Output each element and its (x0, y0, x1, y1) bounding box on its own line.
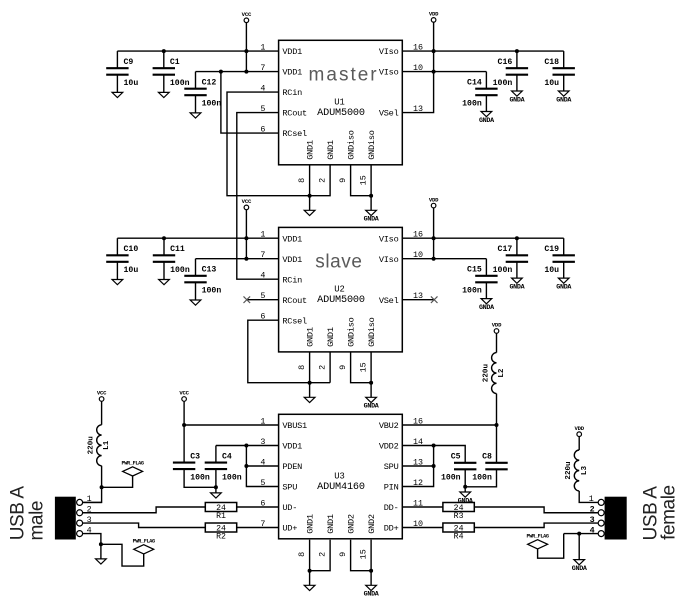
wire U3 GND1 pin 2 (310, 540, 331, 571)
svg-text:100n: 100n (170, 266, 190, 275)
ground GNDA below C17 (516, 262, 518, 278)
svg-text:2: 2 (590, 504, 595, 514)
ground GNDA U1 (370, 196, 372, 211)
svg-text:10u: 10u (124, 266, 139, 275)
svg-text:VIso: VIso (379, 255, 399, 265)
wire VCC slave vertical (245, 210, 247, 259)
svg-text:220u: 220u (565, 461, 573, 480)
junction VCC/U2 pin1 (244, 236, 248, 240)
svg-text:8: 8 (297, 552, 307, 557)
svg-text:C5: C5 (451, 453, 461, 462)
svg-text:GNDA: GNDA (364, 216, 380, 224)
wire USB male pin3 to R2 (83, 523, 206, 527)
svg-text:GNDiso: GNDiso (347, 317, 357, 347)
ground USB male (100, 544, 102, 559)
svg-text:R4: R4 (454, 532, 464, 541)
wire VDD to L2 (496, 333, 498, 353)
junction GNDiso U2 (369, 381, 373, 385)
wire USB male pin1 (83, 501, 102, 503)
power symbol VDD (L3) (577, 432, 582, 437)
no-connect X on U2 VSel (431, 296, 438, 303)
wire U1 VSel to VDD (402, 22, 433, 113)
svg-text:220u: 220u (88, 436, 96, 455)
wire U1 GNDiso pin 15 (370, 165, 372, 196)
wire U2 GNDiso pin 9 (351, 352, 372, 383)
power flag PWR_FLAG 2 (101, 544, 144, 566)
wire U1 GNDiso pin 9 (351, 165, 372, 196)
svg-text:U3: U3 (334, 471, 345, 481)
svg-text:220u: 220u (483, 364, 491, 383)
svg-text:15: 15 (358, 362, 368, 372)
junction C1/VDD1 (162, 49, 166, 53)
svg-text:7: 7 (260, 63, 265, 73)
svg-text:2: 2 (317, 178, 327, 183)
svg-text:GND1: GND1 (306, 140, 316, 160)
capacitor C3 (183, 462, 185, 464)
wire U1 RCout to U2 RCin (237, 113, 279, 280)
svg-text:C4: C4 (222, 453, 232, 462)
svg-text:100n: 100n (202, 287, 222, 296)
svg-text:C14: C14 (467, 79, 482, 88)
capacitor C19 (563, 238, 565, 255)
junction GND1 U3 (308, 569, 312, 573)
wire U3 SPU right net (402, 465, 433, 467)
svg-text:100n: 100n (462, 100, 482, 109)
svg-text:GND1: GND1 (306, 327, 316, 347)
svg-text:5: 5 (260, 478, 265, 488)
wire R4 to USB female pin3 (474, 523, 598, 527)
svg-text:100n: 100n (202, 100, 222, 109)
svg-text:VDD1: VDD1 (282, 442, 302, 452)
wire L2 to VBU2 (496, 394, 498, 463)
wire USB male pin2 to R1 (83, 507, 206, 513)
wire R1 to U3 UD- (237, 506, 279, 508)
svg-text:8: 8 (297, 365, 307, 370)
svg-text:VCC: VCC (242, 11, 252, 18)
svg-text:C16: C16 (498, 58, 513, 67)
svg-text:2: 2 (317, 365, 327, 370)
svg-text:SPU: SPU (384, 462, 399, 472)
capacitor C9 (116, 51, 118, 68)
svg-text:C10: C10 (124, 245, 139, 254)
svg-text:10u: 10u (124, 79, 139, 88)
wire U3 DD- to R3 (402, 506, 443, 508)
capacitor C16 (516, 51, 518, 68)
svg-text:VIso: VIso (379, 47, 399, 57)
svg-text:C12: C12 (202, 79, 217, 88)
junction VCC/pin1 (244, 49, 248, 53)
svg-text:R2: R2 (216, 532, 226, 541)
resistor R1 (205, 503, 236, 512)
svg-text:15: 15 (358, 175, 368, 185)
wire U2 GND1 pin 2 (329, 352, 331, 383)
wire U2 GND1 pin 8 (309, 352, 311, 383)
capacitor C10 (116, 238, 118, 255)
wire U1 VIso pin10 net (402, 71, 486, 73)
svg-text:VDD1: VDD1 (282, 47, 302, 57)
power flag PWR_FLAG 1 (102, 476, 133, 487)
svg-text:C8: C8 (482, 453, 492, 462)
svg-text:VDD: VDD (429, 196, 439, 203)
svg-text:C13: C13 (202, 266, 217, 275)
capacitor C18 (563, 51, 565, 68)
ground below C11 (163, 262, 165, 280)
wire U2 VIso pin16 net (402, 237, 563, 239)
wire VDD slave vertical (433, 208, 435, 259)
wire U2 RCout stub (247, 299, 279, 301)
svg-text:100n: 100n (190, 474, 210, 483)
capacitor C11 (163, 238, 165, 255)
junction VCC/pin7 (244, 70, 248, 74)
svg-text:GNDA: GNDA (509, 283, 525, 291)
svg-text:9: 9 (338, 365, 348, 370)
svg-text:10u: 10u (544, 79, 559, 88)
junction C5/C8 ground (463, 485, 467, 489)
svg-text:VCC: VCC (97, 390, 107, 397)
junction PDEN (244, 464, 248, 468)
op-amp U2 ADUM5000 slave (279, 227, 403, 352)
svg-text:VDD: VDD (429, 11, 439, 18)
svg-text:C17: C17 (498, 245, 513, 254)
junction L2/VBU2/C8 (495, 423, 499, 427)
capacitor C15 (485, 259, 487, 276)
svg-text:GNDA: GNDA (479, 304, 495, 312)
svg-text:VBUS1: VBUS1 (282, 421, 307, 431)
svg-text:C19: C19 (544, 245, 559, 254)
svg-text:7: 7 (260, 519, 265, 529)
svg-text:4: 4 (260, 83, 265, 93)
svg-text:VSel: VSel (379, 109, 399, 119)
svg-text:master: master (309, 65, 379, 86)
USB A female connector J2 (605, 497, 627, 540)
wire VCC to C3 (183, 401, 185, 463)
svg-text:9: 9 (338, 178, 348, 183)
junction VDD/U2 pin10 (432, 257, 436, 261)
svg-text:U2: U2 (334, 284, 345, 294)
svg-text:VSel: VSel (379, 296, 399, 306)
svg-text:PWR_FLAG: PWR_FLAG (133, 538, 155, 544)
svg-text:1: 1 (589, 494, 594, 504)
wire U3 PIN net (402, 446, 433, 487)
capacitor C14 (485, 72, 487, 89)
svg-text:GNDA: GNDA (479, 117, 495, 125)
power symbol VCC (slave) (244, 205, 249, 210)
wire U2 VDD1 pin7 net (196, 258, 279, 260)
op-amp U3 ADUM4160 (279, 414, 403, 539)
wire L1 to USB male pin1 (83, 466, 102, 503)
wire C4 bottom (215, 469, 217, 487)
svg-text:RCsel: RCsel (282, 316, 307, 326)
capacitor C13 (195, 259, 197, 276)
resistor R4 (443, 523, 474, 532)
svg-text:ADUM5000: ADUM5000 (317, 295, 365, 306)
svg-text:100n: 100n (472, 474, 492, 483)
resistor R2 (205, 523, 236, 532)
wire U1 GND1 pin 2 (310, 165, 331, 196)
junction GNDiso U1 (369, 194, 373, 198)
svg-text:L3: L3 (581, 466, 589, 476)
svg-text:GNDA: GNDA (556, 96, 572, 104)
svg-text:RCin: RCin (282, 88, 302, 98)
ground U2 GND1 (309, 383, 311, 398)
power symbol VCC (VBUS1) (182, 397, 187, 402)
ground below C13 (195, 282, 197, 300)
wire U1 RCsel to VDD1 (221, 72, 279, 134)
power symbol VDD (slave) (431, 203, 436, 208)
wire USB male pin4 gnd (83, 534, 101, 545)
svg-text:5: 5 (260, 104, 265, 114)
junction GND2 U3 (369, 569, 373, 573)
ground below C10 (116, 262, 118, 280)
svg-text:6: 6 (260, 312, 265, 322)
svg-text:GNDA: GNDA (364, 403, 380, 411)
svg-text:VIso: VIso (379, 234, 399, 244)
ground below C3 C4 (215, 487, 217, 493)
svg-text:100n: 100n (493, 79, 513, 88)
wire R3 to USB female pin2 (474, 507, 598, 513)
svg-text:VIso: VIso (379, 68, 399, 78)
svg-text:VCC: VCC (179, 390, 189, 397)
wire USB female pin4 gnd (564, 533, 599, 535)
wire U1 VIso pin16 net (402, 50, 563, 52)
svg-text:female: female (659, 485, 680, 540)
svg-text:PIN: PIN (384, 483, 399, 493)
ground GNDA USB female (578, 534, 580, 560)
ground U3 GND1 (309, 571, 311, 586)
svg-text:2: 2 (317, 552, 327, 557)
ground GNDA below C15 (485, 282, 487, 298)
power symbol VDD (L2) (494, 329, 499, 334)
svg-text:RCsel: RCsel (282, 129, 307, 139)
svg-text:UD+: UD+ (282, 524, 297, 534)
svg-text:1: 1 (260, 230, 265, 240)
op-amp U1 ADUM5000 master (279, 40, 403, 165)
svg-text:100n: 100n (441, 474, 461, 483)
svg-text:R3: R3 (454, 512, 464, 521)
ground below C1 (163, 75, 165, 93)
ground below C12 (195, 95, 197, 113)
svg-text:1: 1 (260, 416, 265, 426)
svg-text:ADUM5000: ADUM5000 (317, 108, 365, 119)
junction VDD2 (432, 444, 436, 448)
svg-text:5: 5 (260, 291, 265, 301)
svg-text:RCout: RCout (282, 109, 307, 119)
wire R2 to U3 UD+ (237, 527, 279, 529)
power symbol VCC (L1) (99, 397, 104, 402)
inductor L2 (492, 353, 497, 394)
svg-text:DD+: DD+ (384, 524, 399, 534)
ground U1 GND1 (309, 196, 311, 211)
svg-text:100n: 100n (222, 474, 242, 483)
svg-text:9: 9 (338, 552, 348, 557)
junction male shield (99, 542, 103, 546)
wire U3 PDEN net (246, 465, 278, 467)
svg-text:C11: C11 (170, 245, 185, 254)
svg-text:C9: C9 (124, 58, 134, 67)
svg-text:VBU2: VBU2 (379, 421, 399, 431)
svg-text:PDEN: PDEN (282, 462, 302, 472)
svg-text:UD-: UD- (282, 503, 297, 513)
wire U2 VDD1 pin1 net (117, 237, 278, 239)
svg-text:RCout: RCout (282, 296, 307, 306)
junction GND1 U2 (308, 381, 312, 385)
svg-text:C15: C15 (467, 266, 482, 275)
svg-text:GND1: GND1 (326, 140, 336, 160)
svg-text:VDD: VDD (492, 322, 502, 329)
wire C8 bottom (465, 469, 496, 487)
junction GND1 U1 (308, 194, 312, 198)
power symbol VDD (master) (431, 18, 436, 23)
junction RCsel/pin7 (219, 70, 223, 74)
wire VCC to U1 VDD1 pin 1 net (117, 50, 278, 52)
capacitor C17 (516, 238, 518, 255)
wire U3 GND2 pin 15 (370, 540, 372, 571)
svg-text:100n: 100n (462, 287, 482, 296)
wire U2 GNDiso pin 15 (370, 352, 372, 383)
svg-text:L2: L2 (498, 368, 506, 378)
svg-text:C3: C3 (190, 453, 200, 462)
svg-text:3: 3 (590, 515, 595, 525)
junction VCC/VBUS1 (182, 423, 186, 427)
svg-text:VDD: VDD (574, 425, 584, 432)
svg-text:100n: 100n (493, 266, 513, 275)
svg-text:GNDA: GNDA (572, 565, 588, 573)
wire VBU2 (402, 424, 496, 426)
wire C4 top (216, 445, 247, 447)
wire VBUS1 (184, 424, 279, 426)
wire U1 VDD1 pin 7 net (196, 71, 279, 73)
capacitor C8 (496, 462, 498, 464)
junction C16/pin16 (515, 49, 519, 53)
wire VCC vertical (245, 23, 247, 72)
svg-text:4: 4 (260, 457, 265, 467)
svg-text:C1: C1 (170, 58, 180, 67)
wire U1 GND1 pin 8 (309, 165, 311, 196)
svg-text:R1: R1 (216, 512, 226, 521)
junction VDD/pin16 (432, 49, 436, 53)
ground GNDA below C16 (516, 75, 518, 91)
svg-text:ADUM4160: ADUM4160 (317, 482, 365, 493)
svg-text:VCC: VCC (242, 198, 252, 205)
svg-text:GND2: GND2 (367, 514, 377, 534)
svg-text:VDD1: VDD1 (282, 234, 302, 244)
svg-text:slave: slave (315, 252, 362, 273)
wire VCC to L1 (101, 401, 103, 425)
wire U3 GND1 pin 8 (309, 540, 311, 571)
svg-text:GND1: GND1 (326, 514, 336, 534)
inductor L1 (97, 425, 102, 466)
svg-text:PWR_FLAG: PWR_FLAG (527, 533, 549, 539)
svg-text:PWR_FLAG: PWR_FLAG (122, 461, 144, 467)
wire U3 VDD2 net (402, 446, 465, 463)
wire VDD to L3 (578, 436, 580, 450)
wire U3 VDD1 net (246, 445, 278, 447)
ground GNDA U3 (370, 571, 372, 586)
wire C3 bottom (184, 469, 216, 487)
junction female shield (577, 532, 581, 536)
junction SPU right (432, 464, 436, 468)
svg-text:100n: 100n (170, 79, 190, 88)
svg-text:6: 6 (260, 498, 265, 508)
svg-text:GND1: GND1 (306, 514, 316, 534)
power symbol VCC (master) (244, 18, 249, 23)
svg-text:8: 8 (297, 178, 307, 183)
svg-text:GNDA: GNDA (364, 591, 380, 599)
resistor R3 (443, 503, 474, 512)
svg-text:VDD1: VDD1 (282, 255, 302, 265)
ground GNDA below C14 (485, 95, 487, 111)
ground GNDA below C18 (563, 75, 565, 91)
svg-text:DD-: DD- (384, 503, 399, 513)
junction C11/pin1 (162, 236, 166, 240)
wire L3 to USB female pin1 (579, 491, 598, 502)
capacitor C5 (464, 462, 466, 464)
svg-text:1: 1 (260, 42, 265, 52)
ground GNDA U2 (370, 383, 372, 398)
svg-text:RCin: RCin (282, 275, 302, 285)
svg-text:6: 6 (260, 124, 265, 134)
svg-text:GNDA: GNDA (556, 283, 572, 291)
no-connect X on U2 RCout (244, 296, 251, 303)
inductor L3 (574, 450, 579, 491)
svg-text:VDD1: VDD1 (282, 68, 302, 78)
wire U2 RCsel to GND1 (248, 320, 330, 383)
svg-text:10u: 10u (544, 266, 559, 275)
svg-text:GNDA: GNDA (509, 96, 525, 104)
junction VDD1/PDEN vertical (244, 444, 248, 448)
svg-text:L1: L1 (103, 440, 111, 450)
capacitor C12 (195, 72, 197, 89)
svg-text:U1: U1 (334, 98, 345, 108)
svg-text:7: 7 (260, 250, 265, 260)
ground below C9 (116, 75, 118, 93)
svg-text:3: 3 (260, 437, 265, 447)
svg-text:male: male (26, 501, 47, 541)
svg-text:SPU: SPU (282, 483, 297, 493)
wire U3 DD+ to R4 (402, 527, 443, 529)
wire U3 GND2 pin 9 (351, 540, 372, 571)
wire U2 VIso pin10 net (402, 258, 486, 260)
junction VCC/U2 pin7 (244, 257, 248, 261)
svg-text:VDD2: VDD2 (379, 442, 399, 452)
ground GNDA below C19 (563, 262, 565, 278)
wire U1 RCin to GND1 (227, 92, 310, 196)
svg-text:15: 15 (358, 549, 368, 559)
wire U2 VSel stub (402, 299, 433, 301)
ground GNDA below C5 C8 (464, 487, 466, 492)
svg-text:GNDiso: GNDiso (367, 317, 377, 347)
junction C3/C4 ground (214, 485, 218, 489)
junction C17/U2 pin16 (515, 236, 519, 240)
USB A male connector J1 (55, 497, 76, 540)
junction VDD/U2 pin16 (432, 236, 436, 240)
wire C5 bottom (464, 469, 466, 487)
svg-text:GNDiso: GNDiso (347, 130, 357, 160)
svg-text:GND1: GND1 (326, 327, 336, 347)
capacitor C4 (215, 446, 217, 463)
power flag PWR_FLAG 3 (538, 534, 564, 559)
svg-text:4: 4 (260, 271, 265, 281)
junction L1/PWR_FLAG (100, 485, 104, 489)
svg-text:GNDiso: GNDiso (367, 130, 377, 160)
svg-text:C18: C18 (544, 58, 559, 67)
svg-text:GND2: GND2 (347, 514, 357, 534)
capacitor C1 (163, 51, 165, 68)
junction VDD/pin10 (432, 70, 436, 74)
wire U3 SPU net (246, 446, 278, 487)
